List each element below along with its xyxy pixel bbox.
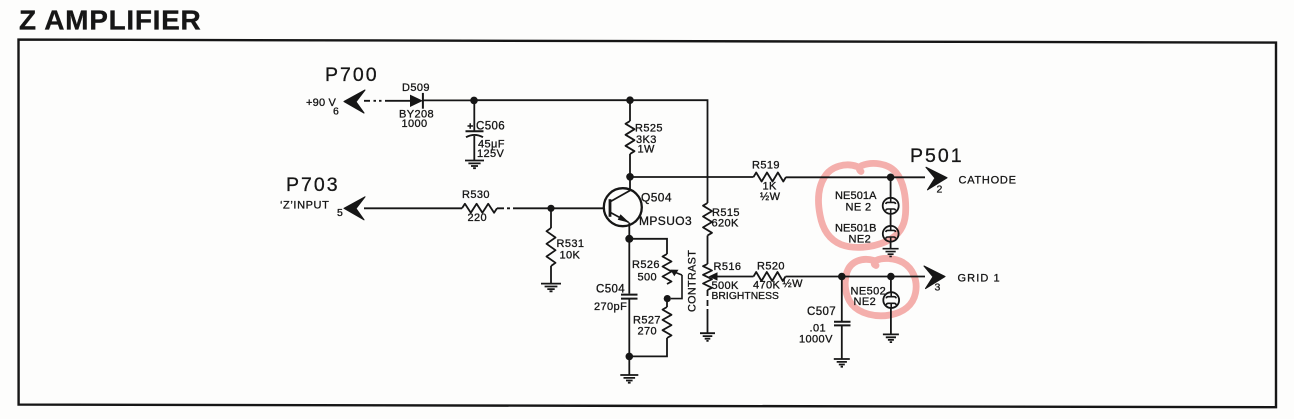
- svg-text:R531: R531: [557, 238, 585, 250]
- potentiometer R516: [703, 264, 712, 290]
- svg-text:‘Z’INPUT: ‘Z’INPUT: [280, 200, 329, 212]
- label +90V: [306, 97, 337, 109]
- svg-text:620K: 620K: [712, 218, 740, 230]
- ground below NE502: [883, 334, 899, 342]
- svg-text:C507: C507: [807, 306, 836, 318]
- neon lamp NE501B: [883, 226, 899, 242]
- svg-text:5: 5: [337, 207, 343, 219]
- resistor R519: [754, 173, 787, 182]
- neon lamp NE501A: [883, 198, 899, 214]
- label 620K: [712, 218, 740, 230]
- resistor R520: [754, 272, 786, 281]
- label NE2 B: [849, 234, 872, 246]
- label BY208: [399, 109, 434, 121]
- node R526 R527 junction: [664, 295, 671, 302]
- ground below R516: [700, 333, 715, 341]
- svg-text:270: 270: [638, 326, 658, 338]
- wire node to R526: [629, 239, 667, 254]
- svg-text:D509: D509: [402, 82, 430, 94]
- wire C506 to ground: [473, 136, 475, 160]
- wire R530 to base: [497, 207, 604, 209]
- node NE502 top: [887, 273, 895, 281]
- svg-text:R530: R530: [462, 189, 490, 201]
- wire R519 to cathode arrow: [786, 176, 925, 178]
- wire R520 to grid arrow: [786, 276, 926, 278]
- label D509: [402, 82, 430, 94]
- svg-text:10K: 10K: [560, 250, 581, 262]
- label 1K: [763, 181, 778, 193]
- label CONTRAST: [687, 250, 699, 312]
- svg-text:Q504: Q504: [641, 191, 672, 205]
- wire D509 to node: [423, 99, 474, 101]
- svg-text:½W: ½W: [760, 191, 781, 203]
- wire R515 to R516: [707, 236, 709, 265]
- wire C507 to ground: [841, 325, 843, 358]
- capacitor C507: [834, 322, 851, 326]
- connector P501 label: [910, 145, 964, 167]
- svg-text:P703: P703: [286, 174, 340, 196]
- label BRIGHTNESS: [712, 291, 780, 302]
- ground below C507: [834, 359, 850, 367]
- label .01: [810, 323, 827, 335]
- capacitor C504: [621, 295, 638, 299]
- svg-text:1W: 1W: [638, 144, 656, 156]
- capacitor C506 plus sign: [468, 123, 474, 128]
- transistor Q504 base bar: [609, 199, 612, 217]
- label C506: [476, 121, 505, 133]
- wire node to C504: [628, 239, 630, 294]
- pink highlighter loop around NE501A NE501B: [818, 163, 905, 247]
- label 270: [638, 326, 658, 338]
- resistor R527: [663, 307, 672, 338]
- wire R525 to collector node: [629, 154, 631, 177]
- wire node to R531: [550, 208, 552, 228]
- svg-text:P501: P501: [910, 145, 964, 167]
- wire rail corner: [630, 100, 708, 203]
- label 500K: [712, 280, 740, 292]
- pin 2 label: [937, 184, 943, 196]
- ground below C506: [465, 161, 484, 169]
- wire bottom node to ground: [628, 356, 630, 374]
- svg-text:MPSUO3: MPSUO3: [639, 214, 692, 228]
- svg-text:Z AMPLIFIER: Z AMPLIFIER: [19, 5, 201, 36]
- label R526: [632, 259, 660, 271]
- label 45uF: [478, 139, 505, 151]
- wire node to R525: [629, 100, 631, 121]
- R516 wiper arrow: [709, 272, 754, 280]
- transistor Q504 emitter: [611, 213, 630, 223]
- transistor Q504 collector: [611, 177, 631, 202]
- label Z INPUT: [280, 200, 329, 212]
- svg-text:270pF: 270pF: [594, 301, 627, 313]
- label Q504: [641, 191, 672, 205]
- label 470K: [753, 280, 781, 292]
- svg-text:C506: C506: [476, 121, 505, 133]
- transistor Q504 body: [604, 188, 642, 226]
- wire NE501A to NE501B: [890, 214, 892, 226]
- label NE2 502: [854, 296, 877, 308]
- label NE501B: [835, 223, 877, 235]
- wire R527 to bottom node: [629, 338, 667, 356]
- connector arrow P501 pin 3: [924, 266, 945, 289]
- node NE501 top: [887, 174, 895, 182]
- wire C504 to bottom node: [628, 299, 630, 357]
- resistor R530: [462, 204, 497, 213]
- ground below NE501B: [883, 249, 899, 257]
- svg-text:R520: R520: [757, 261, 785, 273]
- svg-text:R519: R519: [752, 160, 780, 172]
- node C507 top: [838, 273, 846, 281]
- wire junction to R527: [666, 299, 668, 307]
- pin 5 label: [337, 207, 343, 219]
- label 220: [468, 212, 488, 224]
- connector arrow P700 pin 6: [344, 90, 365, 113]
- label 3K3: [636, 134, 657, 146]
- R526 wiper arm: [670, 270, 682, 299]
- label 1000V: [799, 334, 833, 346]
- diode D509: [410, 93, 423, 109]
- connector P703 label: [286, 174, 340, 196]
- node emitter: [625, 235, 633, 243]
- ground below C504 R527: [620, 375, 638, 383]
- svg-text:GRID 1: GRID 1: [958, 273, 1001, 285]
- label 1W: [638, 144, 656, 156]
- connector arrow P703 pin 5: [344, 197, 365, 220]
- pink highlighter loop around NE502: [845, 258, 916, 315]
- node bottom: [626, 353, 634, 361]
- svg-text:220: 220: [468, 212, 488, 224]
- pin 3 label: [935, 282, 941, 294]
- wire R531 to ground: [550, 266, 552, 283]
- wire P703 to R530: [364, 207, 462, 209]
- label NE502: [851, 286, 887, 298]
- connector P700 label: [325, 64, 379, 86]
- title Z AMPLIFIER: [19, 5, 201, 36]
- connector arrow P501 pin 2: [926, 167, 947, 190]
- wire to NE501A: [890, 177, 892, 198]
- svg-text:CONTRAST: CONTRAST: [687, 250, 699, 312]
- wire node to R525 node: [474, 99, 630, 101]
- label half W R520: [783, 278, 804, 290]
- svg-text:1000V: 1000V: [799, 334, 833, 346]
- wire collector to R519: [630, 176, 754, 178]
- label R520: [757, 261, 785, 273]
- wire node to C507: [841, 277, 843, 322]
- label C504: [596, 284, 625, 296]
- svg-text:1000: 1000: [402, 118, 428, 130]
- svg-text:R516: R516: [714, 261, 742, 273]
- node base R531: [547, 205, 554, 212]
- resistor R525: [626, 121, 635, 154]
- label half W R519: [760, 191, 781, 203]
- wire node to NE502: [890, 277, 892, 293]
- svg-text:P700: P700: [325, 64, 379, 86]
- label R519: [752, 160, 780, 172]
- svg-text:½W: ½W: [783, 278, 804, 290]
- resistor R515: [703, 203, 712, 236]
- svg-text:500: 500: [638, 272, 658, 284]
- label 125V: [477, 148, 505, 160]
- label R527: [633, 315, 661, 327]
- label NE2 A: [846, 202, 872, 214]
- svg-text:NE2: NE2: [849, 234, 872, 246]
- capacitor C506: [466, 131, 484, 137]
- svg-text:3: 3: [935, 282, 941, 294]
- svg-text:+90 V: +90 V: [306, 97, 337, 109]
- svg-text:R525: R525: [635, 123, 663, 135]
- pin 6 label: [333, 106, 339, 118]
- label MPSU03: [639, 214, 692, 228]
- svg-text:BRIGHTNESS: BRIGHTNESS: [712, 291, 780, 302]
- label GRID 1: [958, 273, 1001, 285]
- ground below R531: [541, 284, 561, 292]
- label CATHODE: [959, 175, 1017, 187]
- label R515: [712, 207, 740, 219]
- potentiometer R526: [663, 254, 672, 284]
- label 500: [638, 272, 658, 284]
- label C507: [807, 306, 836, 318]
- neon lamp NE502: [883, 292, 899, 308]
- wire NE502 to ground: [890, 308, 892, 334]
- label R516: [714, 261, 742, 273]
- node at C506 top: [470, 97, 478, 105]
- label 1000: [402, 118, 428, 130]
- svg-text:NE 2: NE 2: [846, 202, 872, 214]
- wire R516 to ground: [707, 290, 709, 333]
- svg-text:2: 2: [937, 184, 943, 196]
- wire P700 to D509: [364, 100, 410, 102]
- svg-text:R526: R526: [632, 259, 660, 271]
- label 270pF: [594, 301, 627, 313]
- label NE501A: [835, 190, 877, 202]
- svg-text:NE501A: NE501A: [835, 190, 877, 202]
- wire emitter down: [628, 223, 630, 239]
- svg-text:125V: 125V: [477, 148, 505, 160]
- label 10K: [560, 250, 581, 262]
- svg-text:CATHODE: CATHODE: [959, 175, 1017, 187]
- label R530: [462, 189, 490, 201]
- svg-text:470K: 470K: [753, 280, 781, 292]
- label R525: [635, 123, 663, 135]
- resistor R531: [547, 228, 556, 266]
- node at R525 top: [626, 96, 634, 104]
- node collector: [626, 173, 634, 181]
- label R531: [557, 238, 585, 250]
- svg-text:C504: C504: [596, 284, 625, 296]
- wire to C506: [473, 100, 475, 131]
- svg-text:NE2: NE2: [854, 296, 877, 308]
- wire NE501B to ground: [890, 242, 892, 249]
- svg-text:6: 6: [333, 106, 339, 118]
